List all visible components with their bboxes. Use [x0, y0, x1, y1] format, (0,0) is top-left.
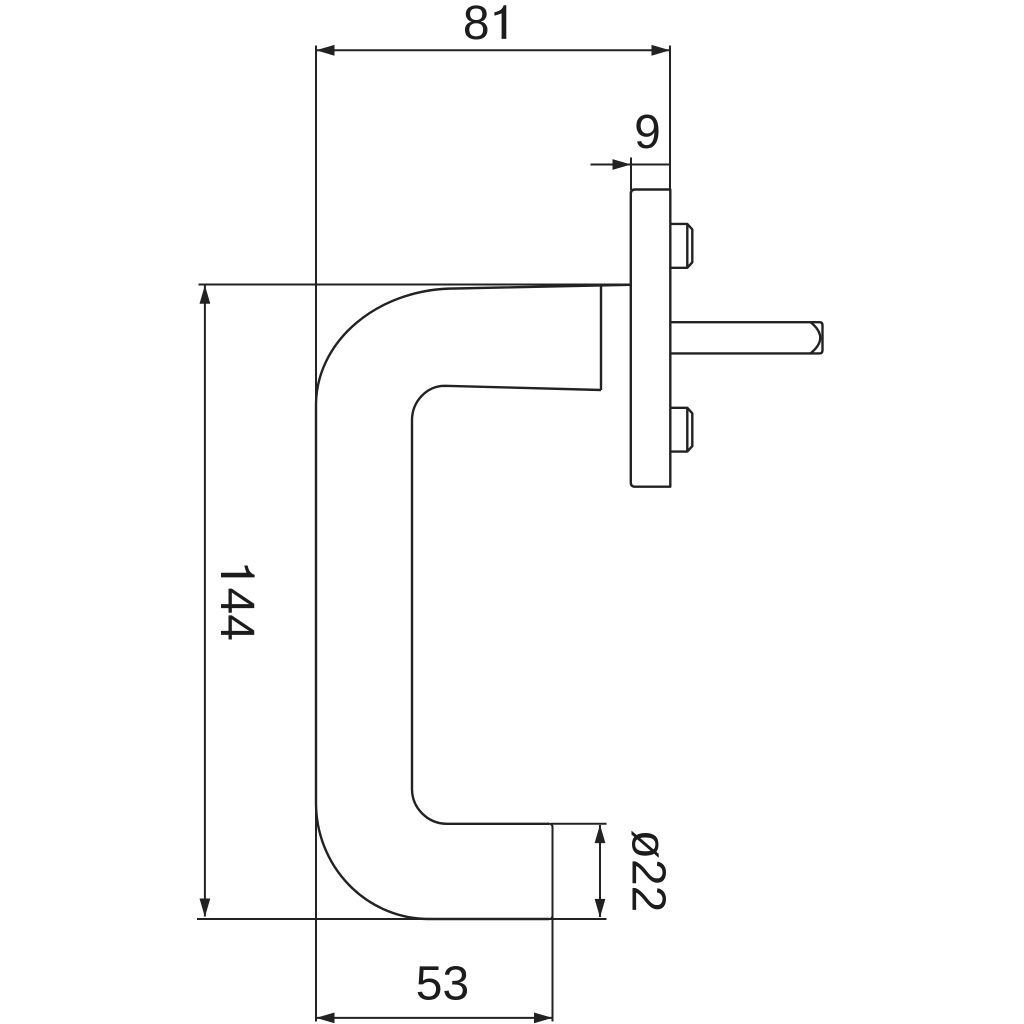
dim 22 top extension line — [551, 823, 607, 825]
dim 144 bottom extension line (shared with handle bottom and dim 22) — [197, 918, 607, 920]
dim 53 left arrow — [316, 1013, 335, 1024]
handle end cap — [547, 824, 553, 919]
screw bottom face line — [686, 408, 688, 452]
dim 81 right arrow — [652, 45, 671, 56]
handle outer contour — [316, 285, 631, 919]
rosette plate — [631, 190, 671, 487]
dim 144 bottom arrow — [200, 899, 211, 918]
screw top body — [670, 224, 692, 268]
handle inner contour — [412, 386, 601, 824]
dim 53 right extension line (handle end cap extended) — [552, 826, 554, 1022]
dim 53 dimension line — [316, 1017, 553, 1019]
label 81 digit 1 — [494, 5, 506, 39]
dim 144 top arrow — [200, 285, 211, 304]
svg-text:ø22: ø22 — [622, 830, 675, 913]
dim 9 dimension line — [631, 164, 670, 166]
dim 9 arrow — [613, 159, 632, 170]
handle collar joint line — [600, 286, 602, 391]
dim 22 top arrow — [595, 825, 606, 844]
svg-text:53: 53 — [416, 957, 469, 1010]
extension line right of dim 81 (x=670 above plate) — [669, 46, 671, 191]
svg-text:44: 44 — [210, 588, 263, 641]
dim 81 left arrow — [316, 45, 335, 56]
dim 9 leader line with arrow — [591, 164, 631, 166]
dim 81 dimension line — [316, 49, 670, 51]
screw bottom body — [670, 408, 692, 452]
dim 22 dimension line — [599, 825, 601, 917]
spindle chamfer arc — [811, 322, 821, 353]
dim 53 right arrow — [534, 1013, 553, 1024]
dim 22 bottom arrow — [595, 899, 606, 918]
dim 144 top extension line — [199, 284, 631, 286]
spindle — [670, 322, 822, 353]
svg-text:8: 8 — [463, 0, 490, 50]
extension line left (x=316, shared by dims 81/144/53 and handle outer edge) — [315, 46, 317, 1022]
screw top face line — [686, 224, 688, 268]
dim 144 dimension line — [204, 286, 206, 917]
label 144 digit 1 — [221, 566, 255, 578]
svg-text:9: 9 — [634, 106, 661, 159]
dim 9 left extension line — [630, 158, 632, 191]
